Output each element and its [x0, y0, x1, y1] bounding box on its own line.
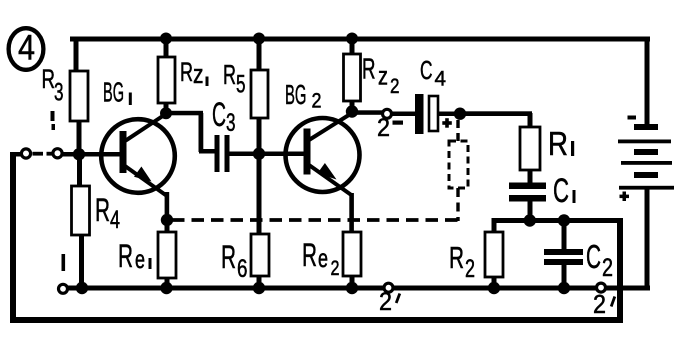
- svg-text:e: e: [135, 244, 145, 274]
- svg-text:e: e: [318, 243, 328, 273]
- svg-text:R: R: [302, 237, 317, 273]
- svg-text:BG: BG: [285, 79, 307, 110]
- svg-text:2: 2: [465, 255, 475, 283]
- svg-text:R: R: [449, 240, 464, 275]
- svg-text:6: 6: [237, 255, 248, 283]
- svg-text:C: C: [212, 96, 226, 134]
- svg-text:C: C: [586, 238, 601, 275]
- svg-text:R: R: [221, 239, 236, 275]
- svg-text:R: R: [95, 192, 110, 228]
- svg-text:2: 2: [312, 90, 322, 113]
- svg-text:4: 4: [18, 29, 35, 68]
- svg-text:2: 2: [390, 75, 400, 98]
- svg-text:R: R: [362, 54, 376, 86]
- svg-text:2: 2: [331, 257, 340, 280]
- svg-text:2: 2: [593, 289, 606, 319]
- svg-text:R: R: [548, 125, 568, 162]
- svg-text:z: z: [193, 59, 204, 89]
- svg-text:R: R: [42, 64, 56, 94]
- svg-text:5: 5: [236, 71, 246, 99]
- svg-text:3: 3: [54, 79, 64, 107]
- svg-text:C: C: [420, 55, 433, 85]
- svg-text:R: R: [180, 57, 193, 87]
- svg-text:2: 2: [379, 288, 392, 316]
- svg-text:BG: BG: [103, 77, 124, 108]
- svg-text:2: 2: [602, 254, 613, 282]
- svg-text:3: 3: [226, 109, 236, 137]
- svg-text:4: 4: [435, 68, 447, 91]
- svg-text:4: 4: [110, 206, 120, 234]
- svg-text:z: z: [378, 61, 388, 91]
- svg-text:R: R: [223, 59, 236, 90]
- svg-text:2: 2: [377, 114, 390, 142]
- svg-text:R: R: [118, 238, 133, 274]
- svg-text:C: C: [553, 172, 569, 210]
